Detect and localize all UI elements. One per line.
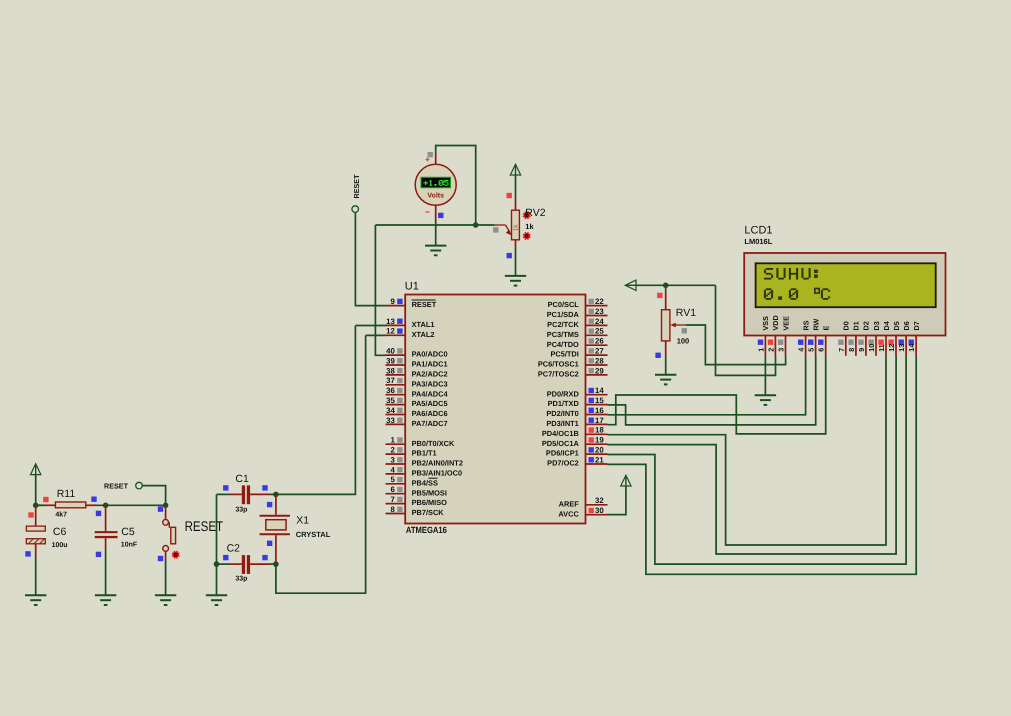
svg-text:PA7/ADC7: PA7/ADC7 bbox=[412, 419, 448, 428]
svg-text:VEE: VEE bbox=[781, 316, 790, 331]
svg-text:11: 11 bbox=[877, 344, 886, 352]
svg-text:R11: R11 bbox=[57, 488, 76, 500]
svg-text:D7: D7 bbox=[912, 321, 921, 330]
svg-text:PC3/TMS: PC3/TMS bbox=[547, 330, 579, 339]
svg-text:14: 14 bbox=[595, 386, 604, 395]
svg-text:PB1/T1: PB1/T1 bbox=[412, 449, 437, 458]
svg-text:30: 30 bbox=[595, 506, 604, 515]
svg-text:2: 2 bbox=[390, 446, 395, 455]
svg-text:25: 25 bbox=[595, 327, 604, 336]
svg-text:PB5/MOSI: PB5/MOSI bbox=[412, 488, 447, 497]
svg-text:RESET: RESET bbox=[104, 482, 129, 491]
svg-text:PA5/ADC5: PA5/ADC5 bbox=[412, 399, 448, 408]
svg-text:16: 16 bbox=[595, 406, 604, 415]
svg-text:PC1/SDA: PC1/SDA bbox=[547, 310, 580, 319]
svg-text:22: 22 bbox=[595, 297, 604, 306]
svg-text:CRYSTAL: CRYSTAL bbox=[296, 530, 331, 539]
svg-text:PD0/RXD: PD0/RXD bbox=[547, 389, 580, 398]
svg-text:D2: D2 bbox=[862, 321, 871, 330]
svg-text:100: 100 bbox=[677, 337, 690, 346]
svg-text:5: 5 bbox=[390, 475, 395, 484]
svg-text:4: 4 bbox=[390, 465, 395, 474]
svg-text:PA0/ADC0: PA0/ADC0 bbox=[412, 350, 448, 359]
svg-text:33p: 33p bbox=[235, 576, 247, 583]
svg-text:RESET: RESET bbox=[185, 518, 224, 534]
svg-text:15: 15 bbox=[595, 396, 604, 405]
svg-text:PD4/OC1B: PD4/OC1B bbox=[542, 429, 579, 438]
svg-text:12: 12 bbox=[887, 344, 896, 352]
svg-text:23: 23 bbox=[595, 307, 604, 316]
svg-text:XTAL1: XTAL1 bbox=[412, 320, 435, 329]
svg-text:26: 26 bbox=[595, 337, 604, 346]
svg-text:C5: C5 bbox=[121, 526, 135, 538]
svg-text:PD2/INT0: PD2/INT0 bbox=[546, 409, 578, 418]
svg-text:AREF: AREF bbox=[559, 499, 580, 508]
svg-text:PD7/OC2: PD7/OC2 bbox=[547, 459, 579, 468]
svg-text:29: 29 bbox=[595, 366, 604, 375]
svg-text:PC4/TDO: PC4/TDO bbox=[547, 340, 579, 349]
svg-text:12: 12 bbox=[386, 327, 395, 336]
svg-text:1k: 1k bbox=[525, 222, 534, 231]
svg-text:7: 7 bbox=[390, 495, 394, 504]
svg-text:4: 4 bbox=[797, 348, 806, 352]
svg-text:PC6/TOSC1: PC6/TOSC1 bbox=[538, 360, 579, 369]
svg-text:33p: 33p bbox=[235, 506, 247, 513]
svg-text:RESET: RESET bbox=[412, 300, 437, 309]
svg-text:PD6/ICP1: PD6/ICP1 bbox=[546, 449, 579, 458]
svg-text:PB2/AIN0/INT2: PB2/AIN0/INT2 bbox=[412, 459, 463, 468]
svg-text:D4: D4 bbox=[882, 321, 891, 330]
svg-text:D1: D1 bbox=[852, 321, 861, 330]
svg-text:13: 13 bbox=[386, 317, 395, 326]
svg-text:1k: 1k bbox=[513, 224, 520, 231]
svg-text:3: 3 bbox=[777, 348, 786, 352]
svg-text:5: 5 bbox=[807, 348, 816, 352]
svg-text:C6: C6 bbox=[53, 526, 67, 538]
svg-text:38: 38 bbox=[386, 366, 395, 375]
svg-text:37: 37 bbox=[386, 376, 395, 385]
svg-text:PD1/TXD: PD1/TXD bbox=[548, 399, 580, 408]
svg-text:PA3/ADC3: PA3/ADC3 bbox=[412, 379, 448, 388]
svg-text:PB6/MISO: PB6/MISO bbox=[412, 498, 448, 507]
svg-text:LCD1: LCD1 bbox=[744, 225, 772, 237]
svg-text:VSS: VSS bbox=[761, 316, 770, 331]
svg-text:PC7/TOSC2: PC7/TOSC2 bbox=[538, 370, 579, 379]
svg-text:9: 9 bbox=[857, 348, 866, 352]
svg-text:PD5/OC1A: PD5/OC1A bbox=[542, 439, 580, 448]
svg-text:10: 10 bbox=[867, 344, 876, 352]
svg-text:LM016L: LM016L bbox=[744, 237, 772, 246]
svg-text:D0: D0 bbox=[842, 321, 851, 330]
svg-text:100u: 100u bbox=[52, 542, 68, 549]
svg-text:6: 6 bbox=[817, 348, 826, 352]
svg-text:14: 14 bbox=[907, 344, 916, 352]
svg-text:18: 18 bbox=[595, 426, 604, 435]
svg-text:RV2: RV2 bbox=[525, 207, 545, 219]
svg-text:D3: D3 bbox=[872, 321, 881, 330]
svg-text:C2: C2 bbox=[227, 542, 241, 554]
svg-text:7: 7 bbox=[837, 348, 846, 352]
svg-text:PB7/SCK: PB7/SCK bbox=[412, 508, 445, 517]
svg-text:17: 17 bbox=[595, 416, 604, 425]
svg-text:21: 21 bbox=[595, 455, 604, 464]
svg-text:32: 32 bbox=[595, 496, 604, 505]
svg-text:PA6/ADC6: PA6/ADC6 bbox=[412, 409, 448, 418]
svg-text:PC0/SCL: PC0/SCL bbox=[548, 300, 580, 309]
svg-text:39: 39 bbox=[386, 356, 395, 365]
svg-text:AVCC: AVCC bbox=[558, 509, 579, 518]
svg-text:PB3/AIN1/OC0: PB3/AIN1/OC0 bbox=[412, 469, 463, 478]
svg-text:PA4/ADC4: PA4/ADC4 bbox=[412, 389, 449, 398]
svg-text:VDD: VDD bbox=[771, 315, 780, 330]
svg-text:PC2/TCK: PC2/TCK bbox=[547, 320, 579, 329]
svg-text:PD3/INT1: PD3/INT1 bbox=[546, 419, 578, 428]
svg-text:U1: U1 bbox=[405, 281, 419, 293]
svg-text:Volts: Volts bbox=[427, 192, 444, 200]
svg-text:6: 6 bbox=[390, 485, 395, 494]
svg-text:8: 8 bbox=[390, 505, 395, 514]
svg-text:8: 8 bbox=[847, 348, 856, 352]
svg-text:33: 33 bbox=[386, 416, 395, 425]
svg-text:28: 28 bbox=[595, 356, 604, 365]
svg-text:XTAL2: XTAL2 bbox=[412, 330, 435, 339]
svg-text:PB0/T0/XCK: PB0/T0/XCK bbox=[412, 439, 455, 448]
svg-text:34: 34 bbox=[386, 406, 395, 415]
svg-text:D6: D6 bbox=[902, 321, 911, 330]
svg-text:RW: RW bbox=[811, 318, 820, 330]
svg-text:RESET: RESET bbox=[352, 174, 361, 199]
svg-text:20: 20 bbox=[595, 446, 604, 455]
svg-text:36: 36 bbox=[386, 386, 395, 395]
svg-text:PB4/SS: PB4/SS bbox=[412, 478, 438, 487]
svg-text:X1: X1 bbox=[296, 515, 309, 527]
svg-text:4k7: 4k7 bbox=[55, 511, 67, 519]
svg-text:1: 1 bbox=[756, 348, 765, 352]
svg-text:PA2/ADC2: PA2/ADC2 bbox=[412, 370, 448, 379]
svg-text:C1: C1 bbox=[235, 473, 249, 485]
svg-text:10nF: 10nF bbox=[121, 541, 138, 548]
svg-text:24: 24 bbox=[595, 317, 604, 326]
svg-text:RV1: RV1 bbox=[676, 307, 696, 319]
svg-text:2: 2 bbox=[766, 348, 775, 352]
svg-text:19: 19 bbox=[595, 436, 604, 445]
svg-text:3: 3 bbox=[390, 455, 395, 464]
svg-text:1: 1 bbox=[390, 436, 395, 445]
svg-text:PC5/TDI: PC5/TDI bbox=[550, 350, 578, 359]
svg-text:27: 27 bbox=[595, 347, 604, 356]
svg-text:9: 9 bbox=[390, 297, 395, 306]
svg-text:13: 13 bbox=[897, 344, 906, 352]
svg-text:D5: D5 bbox=[892, 321, 901, 330]
svg-text:40: 40 bbox=[386, 347, 395, 356]
svg-text:PA1/ADC1: PA1/ADC1 bbox=[412, 360, 448, 369]
svg-text:35: 35 bbox=[386, 396, 395, 405]
svg-text:ATMEGA16: ATMEGA16 bbox=[406, 525, 447, 535]
svg-text:E: E bbox=[822, 326, 831, 331]
svg-text:RS: RS bbox=[801, 320, 810, 330]
